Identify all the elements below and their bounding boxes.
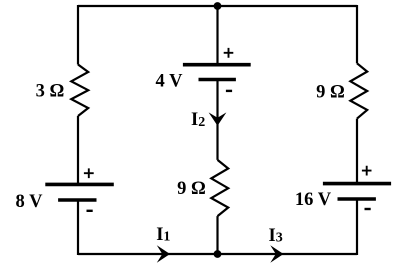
svg-text:8 V: 8 V bbox=[16, 192, 44, 212]
svg-text:3 Ω: 3 Ω bbox=[36, 82, 65, 102]
svg-text:4 V: 4 V bbox=[156, 72, 184, 92]
svg-text:9 Ω: 9 Ω bbox=[316, 83, 345, 103]
svg-text:9 Ω: 9 Ω bbox=[177, 179, 206, 199]
svg-text:16 V: 16 V bbox=[295, 190, 332, 210]
